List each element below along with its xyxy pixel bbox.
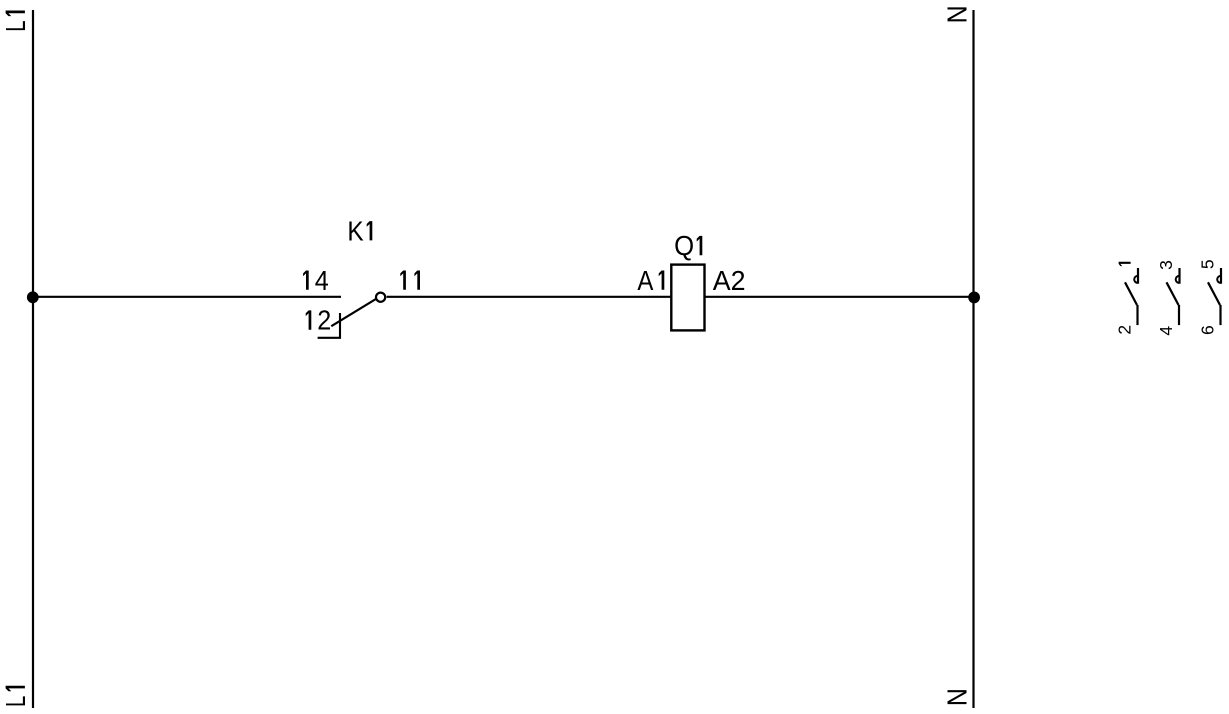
svg-text:A2: A2: [713, 265, 746, 296]
pole 2 lower terminal wire: [1178, 305, 1180, 325]
svg-text:L: L: [0, 20, 31, 31]
coil Q1: [637, 230, 745, 330]
pole 1 moving arm: [1125, 282, 1137, 305]
pole 1 fixed contact bowl: [1134, 276, 1138, 283]
pole 1 fixed terminal wire: [1137, 268, 1139, 284]
svg-text:5: 5: [1198, 259, 1218, 269]
pin 12: [306, 310, 312, 329]
pole 2 fixed terminal wire: [1178, 268, 1180, 284]
K1 pivot circle: [376, 293, 385, 302]
contactor Q1 main contacts (3 poles, rotated): [1115, 259, 1221, 335]
net label L1 (top): [0, 11, 31, 32]
relay contact K1 (changeover): [303, 215, 420, 337]
junction dot on L1 bus: [27, 291, 39, 303]
pin 14: [303, 271, 309, 290]
pole 3 fixed terminal wire: [1220, 268, 1222, 284]
pole 1 lower terminal wire: [1136, 305, 1138, 325]
K1 moving arm: [331, 299, 376, 326]
svg-text:2: 2: [317, 305, 331, 336]
pole 2 moving arm: [1167, 282, 1179, 305]
svg-text:K: K: [347, 215, 364, 246]
wire contact K1 terminal 11 to coil Q1 terminal A1: [387, 296, 671, 298]
pole 2 fixed contact bowl: [1176, 276, 1180, 283]
pole 3 fixed contact bowl: [1217, 276, 1221, 283]
pin 11: [400, 271, 406, 290]
bus N vertical wire: [972, 10, 974, 708]
svg-text:6: 6: [1198, 325, 1218, 335]
svg-text:N: N: [941, 688, 972, 706]
svg-text:Q: Q: [674, 230, 694, 261]
svg-text:A: A: [637, 265, 653, 296]
wire L1 bus to contact K1 terminal 14: [33, 296, 341, 298]
pole 3 moving arm: [1208, 282, 1220, 305]
wire coil Q1 terminal A2 to N bus: [705, 296, 975, 298]
svg-text:N: N: [941, 5, 972, 23]
K1 terminal 12 hook: [318, 313, 340, 338]
junction dot on N bus: [968, 292, 980, 304]
svg-text:L: L: [0, 696, 31, 707]
pole 3 lower terminal wire: [1219, 305, 1221, 325]
svg-text:2: 2: [1115, 325, 1135, 335]
net label L1 (bottom): [0, 686, 31, 707]
svg-text:4: 4: [1156, 326, 1176, 336]
coil Q1 rectangle: [671, 265, 704, 331]
svg-text:4: 4: [315, 265, 329, 296]
svg-text:3: 3: [1156, 260, 1176, 270]
pin 1: [1119, 262, 1131, 266]
bus L1 vertical wire: [32, 10, 34, 708]
